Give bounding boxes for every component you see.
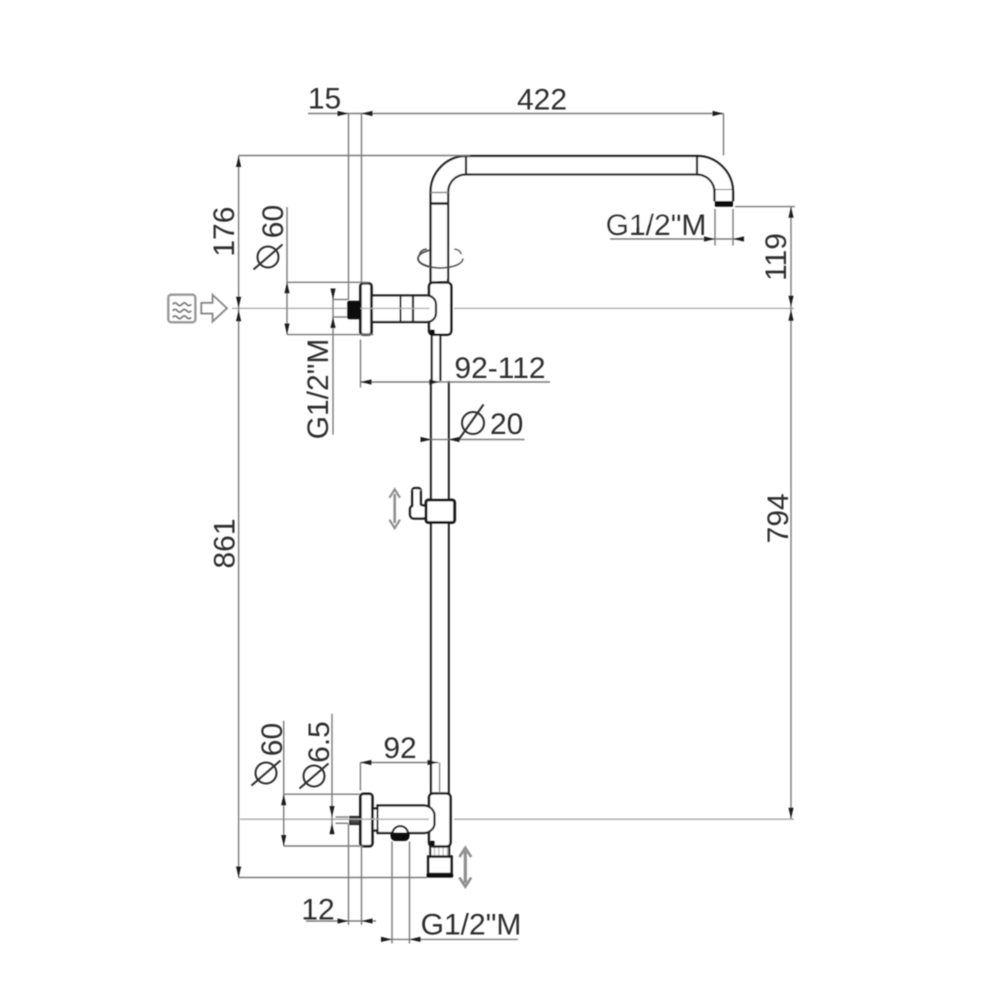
svg-text:60: 60 bbox=[257, 205, 290, 238]
svg-text:6.5: 6.5 bbox=[303, 721, 336, 763]
svg-text:12: 12 bbox=[301, 894, 334, 927]
svg-text:60: 60 bbox=[256, 723, 289, 756]
svg-text:92-112: 92-112 bbox=[454, 352, 545, 385]
svg-text:92: 92 bbox=[383, 732, 416, 765]
svg-text:794: 794 bbox=[762, 493, 795, 543]
svg-text:15: 15 bbox=[308, 83, 341, 116]
svg-text:20: 20 bbox=[490, 408, 523, 441]
svg-text:422: 422 bbox=[517, 84, 567, 117]
svg-text:G1/2"M: G1/2"M bbox=[421, 909, 522, 942]
svg-text:176: 176 bbox=[208, 207, 241, 257]
svg-text:861: 861 bbox=[209, 518, 242, 568]
svg-text:119: 119 bbox=[760, 233, 793, 281]
svg-text:G1/2"M: G1/2"M bbox=[302, 339, 335, 440]
svg-text:G1/2"M: G1/2"M bbox=[606, 209, 707, 242]
